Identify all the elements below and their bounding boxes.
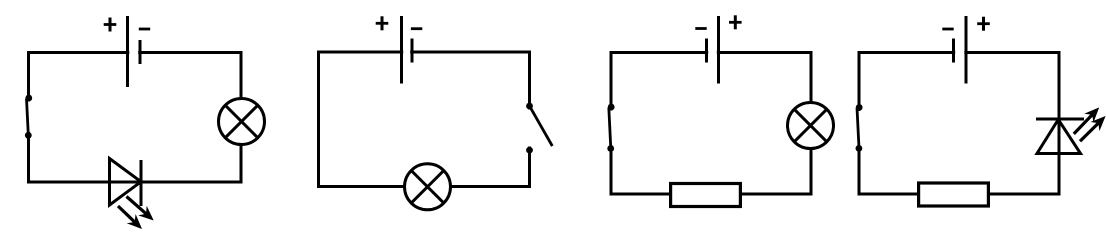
- wire loop circuit 4: [859, 53, 1059, 195]
- LED D1 cathode bar: [140, 160, 143, 206]
- battery B2 negative plate: [411, 39, 414, 63]
- wire loop circuit 1: [29, 53, 242, 183]
- wire gap for switch S4: [856, 111, 863, 145]
- battery B4 positive plate: [965, 16, 968, 84]
- battery B1 positive plate: [126, 16, 129, 87]
- wire loop circuit 2: [319, 52, 530, 187]
- LED D1 emitted-light arrow 2: [118, 206, 146, 234]
- switch S3 blade (closed): [609, 108, 611, 149]
- wire gap for battery B1: [129, 50, 138, 57]
- battery B2 positive plate: [400, 16, 403, 84]
- switch S2 bottom contact dot: [526, 147, 533, 154]
- LED D1 triangle (anode): [110, 159, 142, 206]
- battery B4 negative plate: [952, 39, 955, 63]
- wire gap for battery B4: [955, 50, 964, 57]
- label - of battery B3: [695, 27, 706, 30]
- LED D4 emitted-light arrow 2: [1080, 111, 1106, 141]
- switch S2 top contact dot: [526, 103, 533, 110]
- lamp L2: [405, 164, 451, 210]
- lamp L3: [788, 103, 834, 149]
- switch S2 blade (open): [530, 106, 553, 146]
- resistor R4: [919, 183, 989, 206]
- resistor R3: [671, 184, 741, 207]
- wire gap for battery B2: [403, 49, 410, 56]
- LED D4 triangle (anode): [1037, 120, 1081, 154]
- wire gap for open switch S2: [527, 110, 534, 147]
- switch S4 blade (closed): [857, 108, 859, 148]
- battery B1 negative plate: [139, 40, 142, 64]
- wire gap for switch S1: [26, 102, 33, 133]
- wire loop circuit 3: [611, 53, 811, 195]
- switch S4 bottom contact dot: [856, 145, 863, 152]
- LED D4 cathode bar: [1036, 118, 1084, 121]
- wire gap for battery B3: [708, 50, 717, 57]
- switch S1 top contact dot: [25, 95, 32, 102]
- label - of battery B1: [139, 28, 150, 31]
- battery B3 negative plate: [705, 39, 708, 63]
- label - of battery B2: [411, 27, 422, 30]
- lamp L1: [219, 99, 265, 145]
- label + of battery B1: [104, 18, 117, 32]
- switch S4 top contact dot: [856, 104, 863, 111]
- switch S3 top contact dot: [608, 104, 615, 111]
- label + of battery B2: [376, 16, 389, 30]
- switch S1 bottom contact dot: [25, 132, 32, 139]
- label - of battery B4: [942, 28, 953, 31]
- battery B3 positive plate: [717, 16, 720, 84]
- wire gap for switch S3: [608, 111, 615, 146]
- switch S3 bottom contact dot: [607, 145, 614, 152]
- label + of battery B3: [729, 15, 742, 29]
- LED D4 emitted-light arrow 1: [1074, 103, 1104, 134]
- LED D1 emitted-light arrow 1: [127, 197, 158, 226]
- switch S1 blade (closed): [27, 99, 29, 135]
- label + of battery B4: [977, 17, 990, 31]
